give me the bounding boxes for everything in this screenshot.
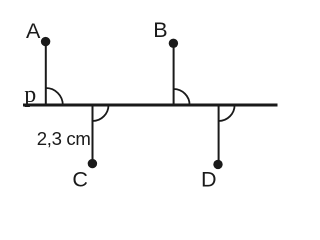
- svg-text:p: p: [24, 82, 36, 108]
- angle arc at B foot: [174, 89, 190, 105]
- svg-text:C: C: [72, 168, 88, 192]
- angle arc at A foot: [46, 88, 63, 105]
- angle arc at C foot: [93, 105, 109, 121]
- point A dot: [41, 37, 50, 46]
- svg-text:A: A: [26, 19, 41, 43]
- segment C-foot (wire): [92, 105, 94, 164]
- segment B-foot (wire): [173, 43, 175, 105]
- point D dot: [213, 160, 222, 169]
- point B dot: [169, 39, 178, 48]
- segment A-foot (wire): [45, 42, 47, 105]
- segment D-foot (wire): [218, 105, 220, 164]
- svg-text:B: B: [153, 18, 167, 42]
- point C dot: [88, 159, 97, 168]
- angle arc at D foot: [219, 105, 235, 121]
- svg-text:2,3 cm: 2,3 cm: [37, 128, 91, 149]
- svg-text:D: D: [201, 168, 217, 192]
- line p (horizontal): [23, 104, 278, 107]
